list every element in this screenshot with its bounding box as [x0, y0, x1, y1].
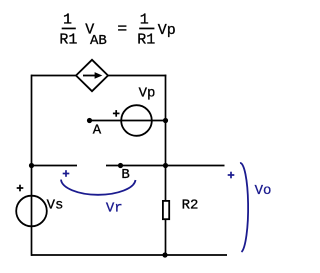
plus sign near Vp	[113, 110, 120, 117]
svg-text:Vr: Vr	[106, 201, 123, 217]
wire Vp horizontal	[90, 120, 166, 122]
wire right vertical lower	[165, 219, 167, 256]
node B dot	[118, 163, 123, 168]
svg-text:R2: R2	[182, 198, 199, 214]
junction dot bottom	[162, 252, 167, 257]
svg-text:Vp: Vp	[158, 22, 176, 39]
svg-text:B: B	[121, 167, 129, 183]
resistor R2 body	[163, 201, 169, 219]
wire right vertical upper	[165, 75, 167, 201]
node A dot	[87, 118, 92, 123]
svg-text:R1: R1	[59, 31, 77, 48]
svg-text:Vp: Vp	[139, 85, 156, 101]
junction dot right middle	[163, 163, 168, 168]
svg-text:1: 1	[63, 12, 72, 29]
wire top right segment	[107, 75, 166, 77]
wire middle left segment	[32, 165, 78, 167]
source Vp circle	[121, 105, 152, 136]
svg-text:1: 1	[140, 12, 149, 29]
svg-text:Vo: Vo	[255, 183, 272, 199]
wire left vertical	[31, 75, 33, 256]
wire bottom horizontal	[31, 254, 227, 256]
plus sign near Vs	[17, 185, 24, 192]
source Vs circle	[16, 196, 47, 227]
blue plus sign for Vo	[228, 172, 235, 179]
svg-text:AB: AB	[90, 33, 107, 49]
blue brace arc Vr	[61, 180, 136, 195]
equation fraction bar (left)	[62, 28, 76, 30]
dependent source arrow	[83, 75, 96, 77]
dependent source diamond	[76, 60, 108, 91]
blue plus sign for Vr	[63, 170, 70, 177]
svg-text:Vs: Vs	[47, 197, 64, 213]
wire top left segment	[31, 75, 77, 77]
svg-text:A: A	[93, 123, 102, 139]
equation fraction bar (right)	[139, 28, 154, 30]
svg-text:=: =	[117, 21, 127, 38]
blue brace arc Vo	[240, 163, 248, 252]
junction dot left middle	[29, 163, 34, 168]
svg-text:R1: R1	[137, 31, 155, 48]
junction dot right of Vp	[163, 118, 168, 123]
wire middle right segment	[106, 165, 225, 167]
